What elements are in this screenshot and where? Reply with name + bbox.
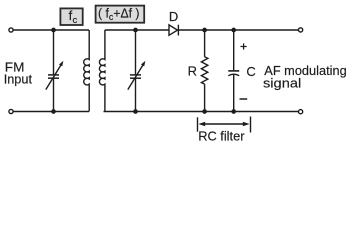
- terminal top-right: [299, 28, 303, 32]
- node secondary cap top junction: [133, 28, 138, 33]
- terminal bottom-left: [9, 109, 13, 113]
- svg-text:RC filter: RC filter: [198, 129, 245, 143]
- capacitor C: [228, 30, 239, 112]
- label box fc: [60, 8, 82, 26]
- node primary top junction: [51, 28, 56, 33]
- node R top junction: [202, 28, 207, 33]
- node secondary cap bottom junction: [133, 109, 138, 114]
- svg-text:Input: Input: [4, 72, 33, 87]
- capacitor CV2 variable secondary: [128, 30, 146, 112]
- wire secondary top right of diode: [178, 29, 298, 31]
- terminal top-left: [9, 28, 13, 32]
- svg-text:( fc+Δf ): ( fc+Δf ): [98, 6, 140, 23]
- inductor L2 secondary coil: [99, 30, 104, 112]
- wire secondary top: [105, 29, 169, 31]
- label box fc+df: [96, 6, 145, 23]
- svg-text:D: D: [169, 9, 178, 24]
- inductor L1 primary coil: [84, 30, 89, 112]
- dimension bracket RC filter: [198, 117, 251, 133]
- node C top junction: [231, 28, 236, 33]
- capacitor CV1 variable primary: [46, 30, 64, 112]
- resistor R: [201, 30, 207, 112]
- svg-text:R: R: [188, 64, 197, 79]
- node R bottom junction: [202, 109, 207, 114]
- svg-text:C: C: [246, 64, 255, 79]
- svg-text:signal: signal: [263, 76, 301, 91]
- wire primary bottom: [13, 111, 89, 113]
- svg-text:c: c: [73, 15, 78, 26]
- node primary bottom junction: [51, 109, 56, 114]
- wire secondary bottom: [104, 111, 299, 113]
- plus sign: [241, 43, 247, 49]
- minus sign: [240, 98, 248, 100]
- terminal bottom-right: [299, 110, 303, 114]
- node C bottom junction: [231, 109, 236, 114]
- diode D: [169, 25, 178, 36]
- wire primary top: [13, 29, 89, 31]
